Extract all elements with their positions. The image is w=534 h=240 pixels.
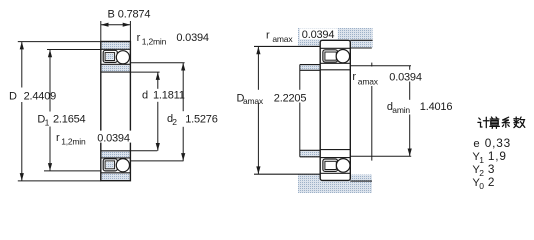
bearing left view: outer ring top band [102, 42, 130, 49]
svg-text:0,33: 0,33 [485, 136, 511, 150]
svg-text:B: B [108, 9, 115, 21]
svg-text:1.5276: 1.5276 [185, 113, 218, 125]
shaft shoulder face vertical line [299, 65, 301, 157]
bearing right view: bottom ball [336, 159, 350, 173]
svg-text:r: r [56, 132, 60, 144]
dimension damin: dimension line with arrow [409, 66, 411, 157]
svg-text:D: D [9, 90, 17, 102]
char 计 [478, 117, 489, 127]
svg-text:e: e [473, 138, 479, 150]
svg-text:2.4409: 2.4409 [24, 90, 57, 102]
dimension B: extension lines [101, 21, 131, 42]
bearing right view: top cage section [323, 50, 338, 62]
dimension D1: extension lines [44, 50, 101, 171]
char 系 [502, 117, 509, 127]
svg-text:d: d [142, 90, 148, 102]
dimension D: extension lines [18, 42, 101, 181]
dimension damin: bottom extension line [351, 155, 412, 157]
dimension D1: dimension line with arrows [49, 50, 51, 171]
dimension Damax: dimension line with arrows [257, 46, 259, 174]
label 0.0394 on housing bar [300, 28, 338, 39]
svg-text:2: 2 [172, 117, 177, 127]
svg-text:1,9: 1,9 [488, 149, 507, 163]
housing top bar machined face lines [254, 40, 373, 48]
bearing left view: outer ring bottom band [102, 173, 130, 180]
bearing left view: outline rect [101, 42, 131, 181]
bearing left view: bottom ball [116, 159, 129, 172]
char 数 [514, 117, 525, 128]
housing bottom bar machined face lines [254, 174, 372, 181]
bearing left view: top cage section [103, 50, 117, 62]
svg-text:amin: amin [392, 105, 410, 115]
bearing right view: top ball [336, 50, 349, 63]
bearing left view: top ball [116, 51, 129, 64]
svg-text:1: 1 [45, 117, 50, 127]
svg-text:0.0394: 0.0394 [97, 132, 130, 144]
svg-text:r: r [352, 71, 356, 83]
dimension d2: extension lines [130, 63, 184, 161]
svg-text:1,2min: 1,2min [61, 137, 86, 147]
char 算 [490, 117, 500, 128]
ra extension vertical line [371, 63, 373, 161]
bearing right view: outline rect [320, 40, 350, 180]
dimension B: dimension line with arrows [101, 24, 131, 26]
dimension d: extension lines [130, 72, 159, 151]
dimension D: dimension line with arrows [21, 42, 23, 181]
svg-text:amax: amax [243, 96, 264, 106]
bearing left view: bottom cage section [103, 159, 117, 171]
label r1,2min 0.0394 (bottom) [96, 131, 132, 143]
svg-text:0.7874: 0.7874 [118, 9, 151, 21]
shaft shoulder bottom bar [300, 150, 320, 157]
svg-text:2.1654: 2.1654 [53, 113, 86, 125]
svg-text:amax: amax [358, 76, 379, 86]
dimension d: dimension line with arrows [157, 72, 159, 151]
shaft shoulder top bar [300, 65, 320, 71]
bearing left view: inner ring top band [102, 65, 130, 72]
svg-text:0.0394: 0.0394 [176, 32, 209, 44]
bearing left view: inner ring bottom band [102, 151, 130, 157]
svg-text:1,2min: 1,2min [142, 37, 167, 47]
svg-text:2: 2 [488, 175, 495, 189]
svg-text:0: 0 [479, 181, 484, 191]
svg-text:1.4016: 1.4016 [420, 101, 453, 113]
svg-text:1.1811: 1.1811 [153, 90, 185, 102]
bearing right view: bottom cage section [323, 159, 338, 171]
dimension damin: top extension line [351, 65, 412, 67]
svg-text:3: 3 [488, 162, 495, 176]
svg-text:0.0394: 0.0394 [389, 72, 422, 84]
svg-text:2.2205: 2.2205 [274, 92, 307, 104]
bearing left view: ring boundary lines [101, 49, 131, 173]
svg-text:r: r [266, 30, 270, 42]
svg-text:0.0394: 0.0394 [302, 29, 335, 41]
svg-text:amax: amax [272, 34, 293, 44]
housing shoulder top bar [298, 28, 373, 48]
dimension d2: dimension line with arrows [182, 63, 184, 161]
svg-text:r: r [137, 32, 141, 44]
heading 计算系数 drawn as strokes [478, 117, 525, 128]
bearing right view: ring boundary lines [320, 48, 350, 173]
housing shoulder bottom bar [298, 175, 372, 194]
